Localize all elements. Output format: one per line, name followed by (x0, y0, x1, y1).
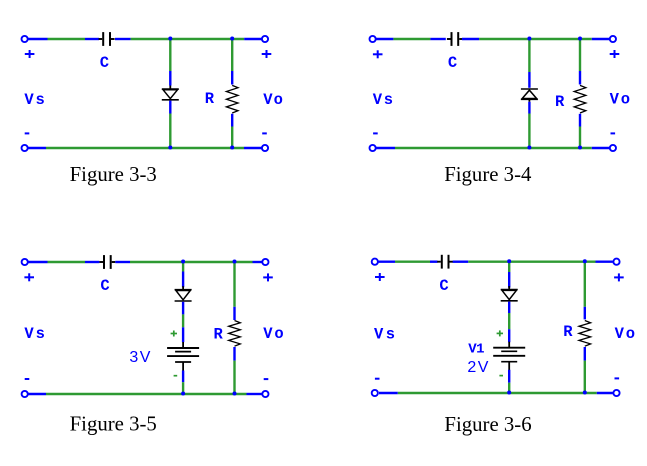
svg-text:Vs: Vs (24, 91, 44, 109)
svg-text:R: R (205, 90, 215, 108)
svg-text:Vs: Vs (24, 325, 45, 343)
svg-text:Vo: Vo (263, 325, 284, 343)
svg-text:Vo: Vo (263, 91, 283, 109)
svg-text:C: C (100, 277, 109, 295)
svg-text:Vs: Vs (374, 325, 395, 343)
svg-text:Figure 3-5: Figure 3-5 (70, 413, 157, 436)
svg-text:3V: 3V (129, 349, 151, 366)
svg-text:R: R (214, 325, 224, 343)
svg-text:Vo: Vo (615, 325, 636, 343)
svg-text:Figure 3-3: Figure 3-3 (70, 163, 157, 186)
svg-text:C: C (448, 54, 457, 72)
svg-text:R: R (563, 323, 573, 341)
svg-text:C: C (100, 54, 109, 72)
svg-text:Vs: Vs (373, 91, 393, 109)
svg-text:Figure 3-4: Figure 3-4 (444, 163, 532, 186)
svg-text:R: R (555, 93, 565, 111)
svg-text:Figure 3-6: Figure 3-6 (444, 413, 531, 436)
svg-text:Vo: Vo (610, 91, 631, 109)
svg-text:C: C (439, 277, 448, 295)
svg-text:V1: V1 (468, 341, 484, 357)
svg-text:2V: 2V (467, 359, 489, 376)
